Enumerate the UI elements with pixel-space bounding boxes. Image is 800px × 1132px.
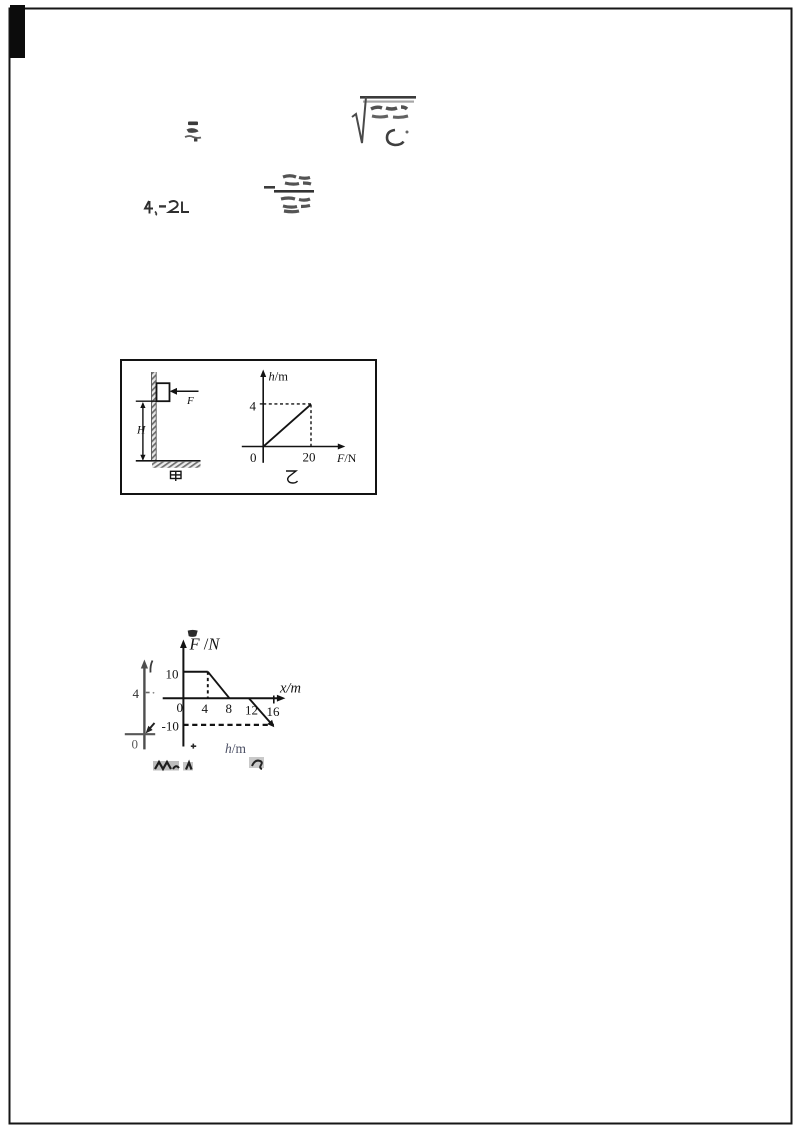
svg-text:H: H [136,425,146,437]
dashed level h=4 [263,403,311,405]
formula fragment 1 (square root expression) [349,91,421,151]
figure 1 box [120,359,377,495]
figure border [121,360,376,494]
left graph h-axis (gray) [125,733,155,735]
main h-axis [163,697,279,699]
svg-text:F/N: F/N [336,451,357,465]
plus mark [191,744,196,749]
force curve flat part [183,671,207,673]
label yi (CJK) [286,471,298,483]
formula fragment 2 (fraction) [262,171,316,216]
svg-text:0: 0 [132,737,139,752]
svg-text:-10: -10 [162,719,179,734]
svg-text:16: 16 [267,704,281,719]
svg-text:F /N: F /N [189,635,221,654]
radical sign [352,97,366,143]
lower C-like smudge [387,130,404,145]
svg-text:h/m: h/m [269,370,289,384]
main v-axis [182,646,184,747]
text scribble B [142,197,194,217]
label jia (CJK) [171,471,182,481]
block on wall [157,383,170,401]
dashed vertical at x=4 [207,672,209,699]
radical overline [360,96,416,99]
svg-text:0: 0 [177,700,184,715]
pointer arrow into origin [148,723,155,731]
svg-text:F: F [186,395,194,407]
second descending segment with arrow [249,698,272,724]
bottom scribbles [145,753,275,777]
black corner bar [10,5,25,58]
text scribble A [182,118,204,144]
H dimension arrow [142,404,144,460]
force arrow F [175,390,199,392]
svg-text:8: 8 [226,701,233,716]
floor line [136,460,201,462]
main graph notch at top [188,630,198,637]
left partial graph v-axis (gray) [143,666,145,749]
svg-text:20: 20 [303,450,316,465]
graph line [264,404,311,446]
svg-text:4: 4 [250,399,257,414]
wall (hatched) [151,372,156,461]
dashed level F=-10 [183,724,274,726]
graph h-axis [242,446,340,448]
numerator smudge [371,107,407,109]
svg-text:4: 4 [202,701,209,716]
svg-text:12: 12 [245,703,258,718]
svg-text:10: 10 [166,667,179,682]
force curve descending part [208,672,230,699]
floor hatching [152,462,201,468]
figure 2 group [108,628,324,778]
dashed drop at F=20 [310,405,312,447]
upper reference tick [136,400,157,402]
graph v-axis [262,375,264,463]
svg-text:4: 4 [133,686,140,701]
partial cut label stroke [150,661,152,673]
svg-text:0: 0 [250,450,257,465]
svg-text:x/m: x/m [279,681,301,697]
tick at 16 [273,696,275,704]
